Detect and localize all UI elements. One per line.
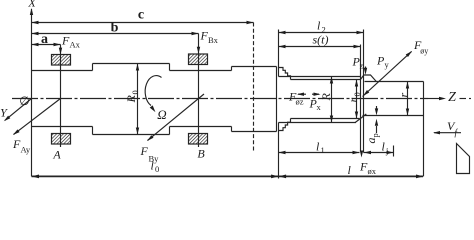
shaft section 3 bbox=[170, 70, 232, 72]
chuck jaw bottom (stepped) bbox=[279, 119, 291, 131]
dashed extension line at chuck center (c / l0 right end) bbox=[253, 23, 255, 153]
workpiece blank outline top bbox=[279, 76, 361, 78]
r_0 dimension bbox=[356, 80, 358, 119]
svg-text:l: l bbox=[317, 19, 321, 33]
svg-text:Ay: Ay bbox=[21, 145, 31, 155]
F_Bx arrow bbox=[197, 47, 200, 54]
label R rotated bbox=[319, 93, 333, 102]
dimension l1 bbox=[279, 152, 360, 154]
svg-text:Ax: Ax bbox=[70, 40, 81, 50]
svg-text:øy: øy bbox=[420, 47, 428, 56]
svg-text:F: F bbox=[140, 144, 149, 158]
extension line right of chuck (top) bbox=[278, 30, 280, 68]
workpiece blank outline bottom bbox=[279, 122, 357, 124]
P_y / F_oy force line (diagonal) bbox=[363, 51, 412, 96]
dimension l_j bbox=[364, 152, 394, 154]
F_Ay force line bbox=[14, 99, 61, 135]
bearing A axis line bbox=[60, 45, 62, 148]
bearing B top hatch bbox=[189, 54, 208, 65]
cut face line 2 (l2 extension) bbox=[363, 30, 365, 153]
label r rotated bbox=[397, 93, 411, 98]
F_Ax arrow bbox=[59, 48, 62, 55]
svg-text:B: B bbox=[197, 147, 205, 161]
workpiece surface top bbox=[291, 79, 361, 81]
workpiece surface bottom bbox=[291, 118, 360, 120]
r dimension (machined radius) bbox=[407, 82, 409, 116]
svg-text:x: x bbox=[317, 102, 322, 112]
P_x arrow (axial, right) bbox=[312, 93, 319, 95]
dimension l2 bbox=[279, 32, 364, 34]
svg-text:c: c bbox=[138, 8, 144, 23]
svg-text:A: A bbox=[52, 148, 61, 162]
X axis line (also left face of shaft and l0 extension) bbox=[31, 9, 33, 176]
svg-text:0: 0 bbox=[155, 164, 159, 174]
svg-text:0: 0 bbox=[352, 92, 362, 96]
bearing A bottom hatch bbox=[52, 134, 71, 145]
F_oz arrow (axial, left) bbox=[298, 93, 306, 95]
svg-text:z: z bbox=[360, 61, 364, 71]
svg-text:j: j bbox=[385, 146, 388, 156]
dimension b line bbox=[32, 33, 199, 35]
svg-text:øx: øx bbox=[368, 166, 377, 176]
V_f arrow bbox=[434, 132, 461, 134]
dimension a line bbox=[32, 44, 61, 46]
svg-text:l: l bbox=[316, 140, 320, 154]
Z axis arrowhead bbox=[439, 97, 446, 100]
label r_0 rotated bbox=[346, 92, 362, 102]
dimension l0 bbox=[32, 175, 279, 177]
centerline Z axis (dash-dot) bbox=[12, 98, 428, 100]
F_ox arrow (down at cut face) bbox=[360, 151, 363, 158]
dimension s(t) bbox=[279, 46, 361, 48]
P_z force arrow (top, vertical) bbox=[365, 67, 367, 70]
bearing B bottom hatch bbox=[189, 134, 208, 145]
svg-text:r: r bbox=[397, 93, 411, 98]
l_j extension tick bbox=[393, 146, 395, 157]
workpiece right face bbox=[423, 82, 425, 177]
svg-text:l: l bbox=[348, 163, 352, 177]
Y axis bbox=[5, 99, 32, 121]
svg-text:R: R bbox=[319, 93, 333, 102]
svg-text:øz: øz bbox=[296, 97, 304, 107]
svg-text:a: a bbox=[41, 32, 48, 47]
svg-text:Ω: Ω bbox=[157, 107, 166, 122]
shaft section 1 bbox=[32, 70, 93, 72]
svg-text:y: y bbox=[385, 60, 390, 70]
dimension c line bbox=[32, 22, 254, 24]
chuck flange bbox=[232, 66, 277, 68]
X axis arrowhead bbox=[30, 8, 33, 15]
R0 dimension bbox=[137, 64, 139, 135]
a_p dimension bbox=[376, 106, 378, 112]
bearing A top hatch bbox=[52, 55, 71, 66]
machined surface bottom bbox=[363, 115, 424, 117]
machined surface top bbox=[365, 81, 424, 83]
svg-text:1: 1 bbox=[321, 145, 325, 155]
cutting zone bump top bbox=[361, 75, 377, 82]
svg-text:∅: ∅ bbox=[19, 94, 29, 108]
svg-text:r: r bbox=[346, 98, 360, 103]
extension line right of chuck (bottom) bbox=[278, 131, 280, 179]
R dimension (blank radius) bbox=[331, 77, 333, 123]
cut face line 1 (s(t) extension, F_ox line) bbox=[360, 45, 362, 152]
chuck jaw top (stepped) bbox=[279, 68, 291, 80]
svg-text:R: R bbox=[124, 95, 138, 104]
bearing B axis line bbox=[198, 34, 200, 148]
cutting zone diagonal bottom bbox=[355, 114, 366, 123]
svg-text:p: p bbox=[370, 133, 380, 137]
F_By force line bbox=[148, 94, 205, 141]
label a_p rotated bbox=[364, 133, 380, 143]
Z axis dash after label bbox=[460, 98, 467, 100]
label R_0 rotated bbox=[124, 90, 140, 103]
svg-text:l: l bbox=[382, 140, 386, 154]
svg-text:0: 0 bbox=[130, 90, 140, 94]
svg-text:Z: Z bbox=[448, 90, 456, 105]
dimension l bbox=[279, 175, 423, 177]
svg-text:X: X bbox=[27, 0, 36, 10]
tool polygon bbox=[457, 144, 470, 174]
svg-text:Bx: Bx bbox=[208, 35, 219, 45]
svg-text:s(t): s(t) bbox=[313, 33, 329, 47]
svg-text:b: b bbox=[111, 21, 119, 36]
shaft section 2 (large) bbox=[93, 63, 170, 65]
rotation arc Omega bbox=[145, 76, 161, 106]
